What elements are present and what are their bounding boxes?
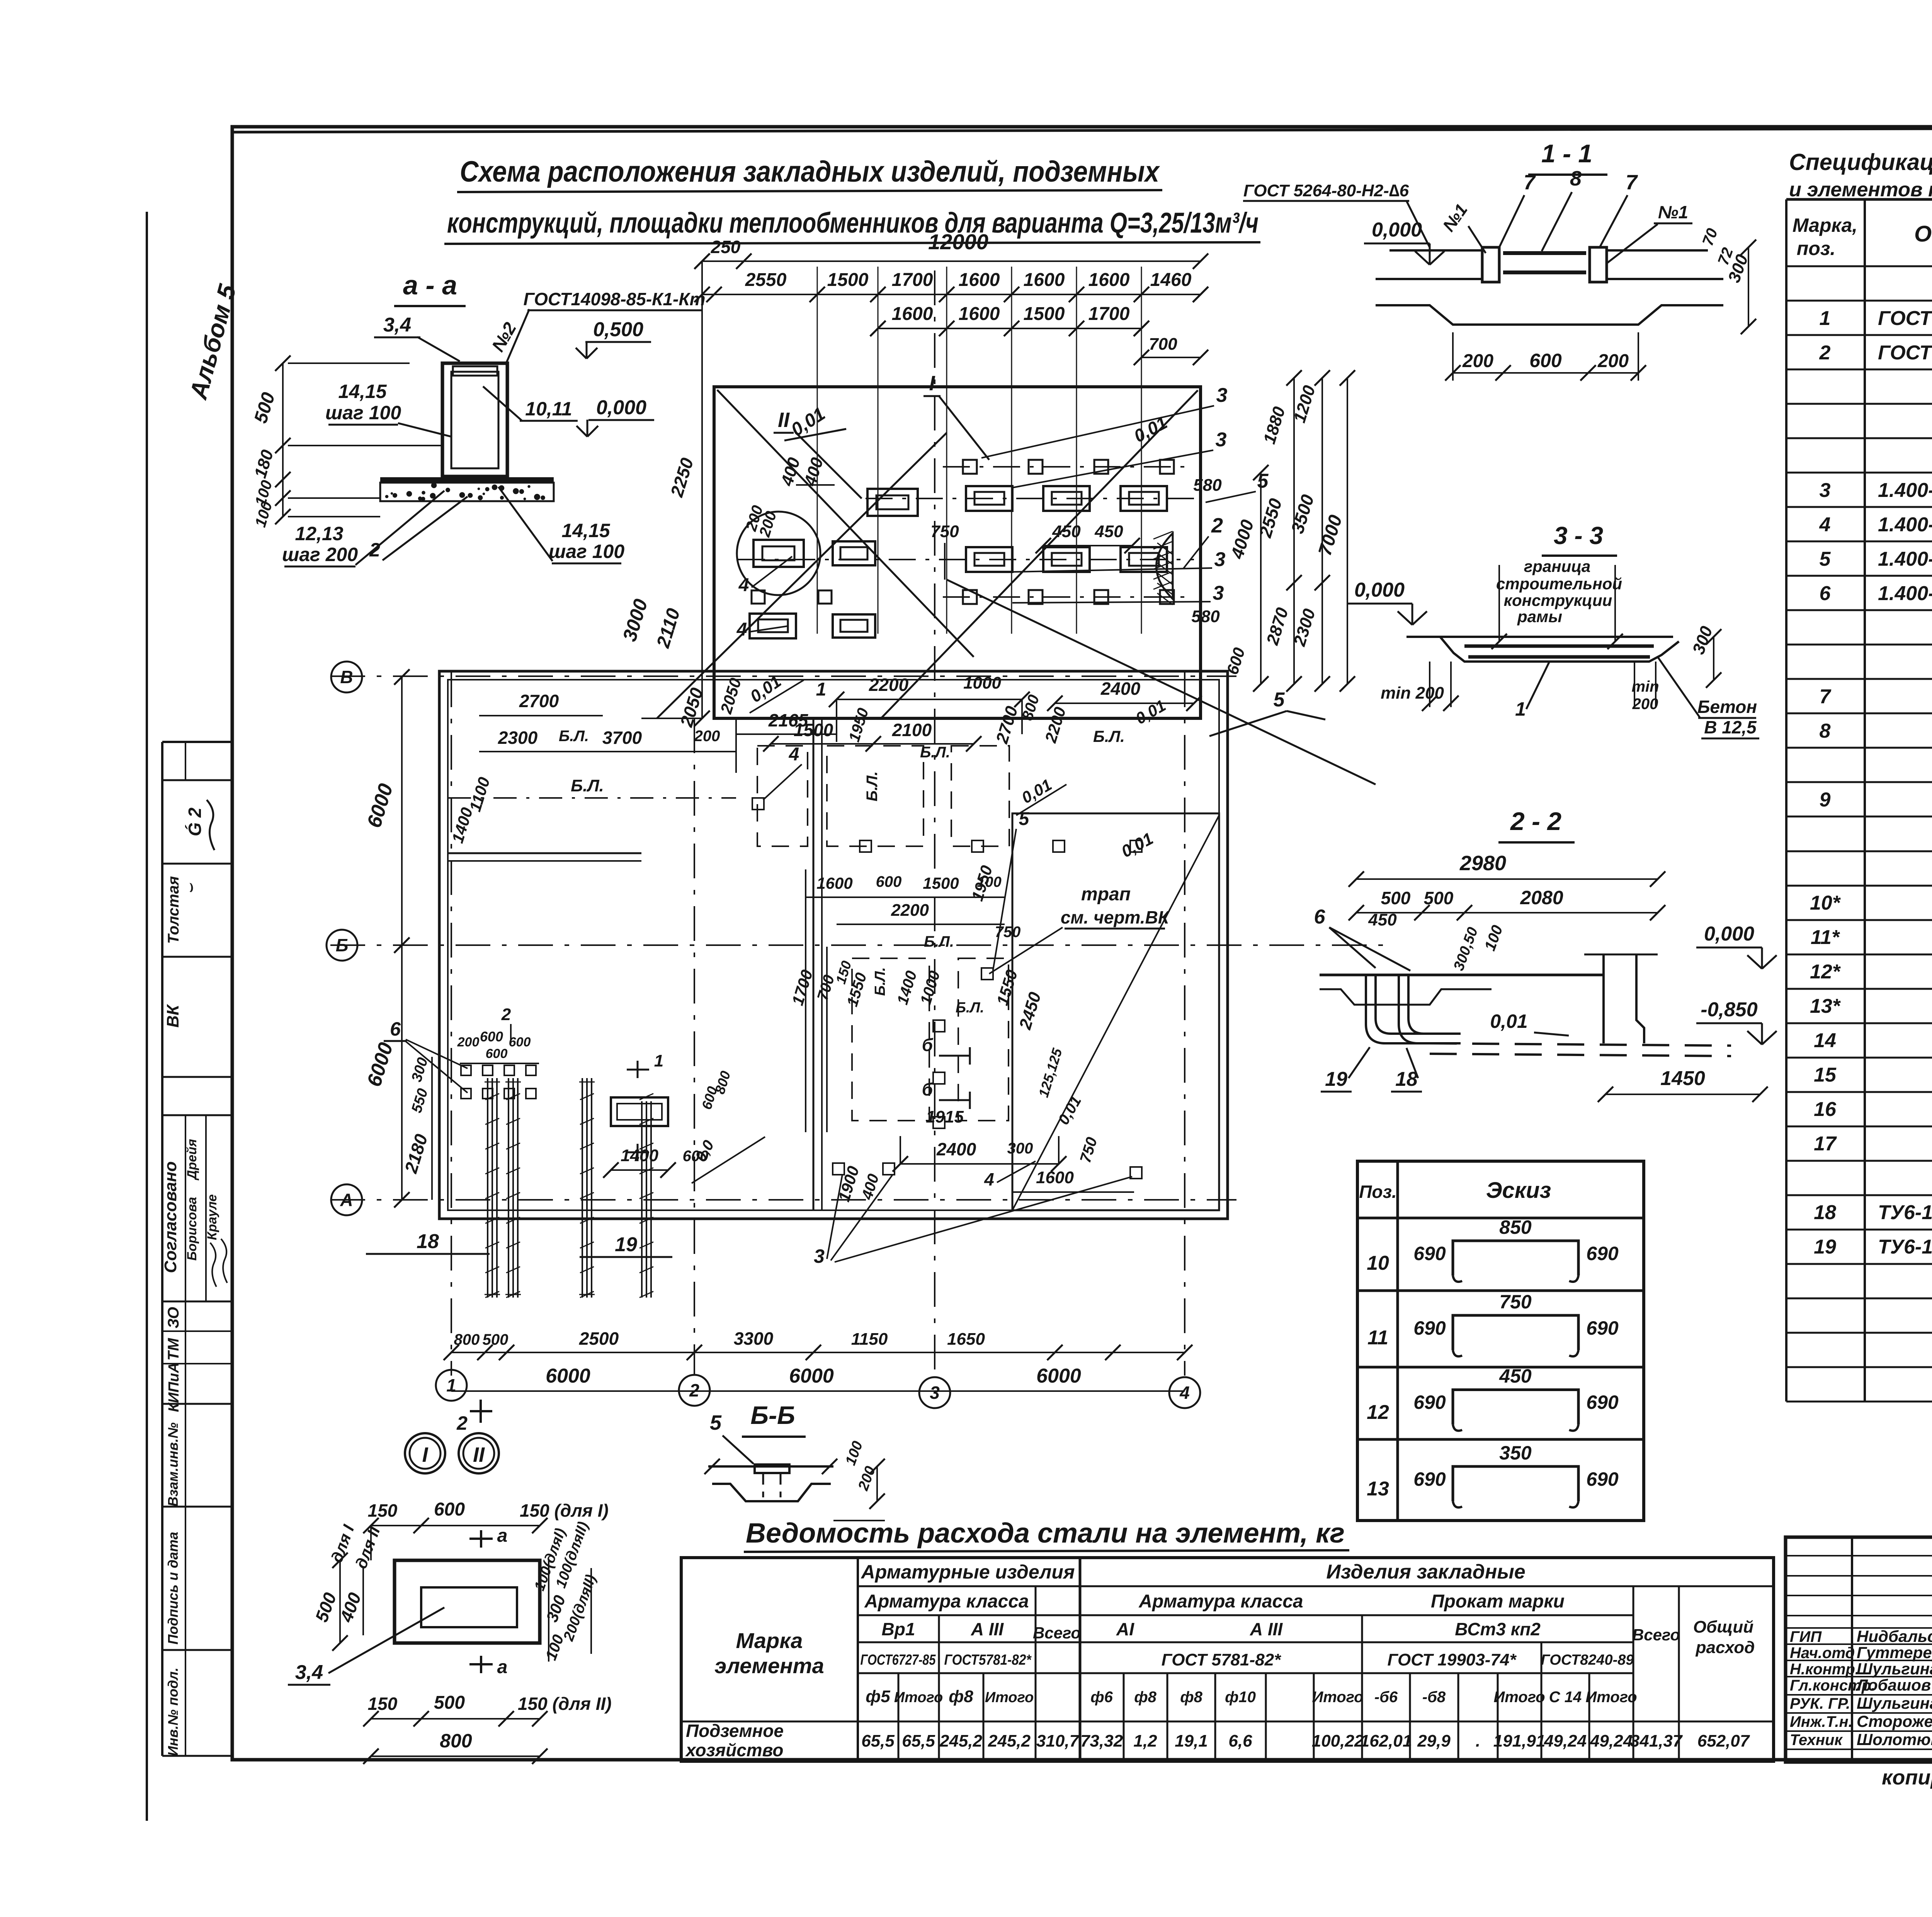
svg-text:2200: 2200	[891, 901, 929, 920]
svg-text:100,22: 100,22	[1312, 1732, 1364, 1750]
svg-text:Ǵ 2: Ǵ 2	[185, 808, 205, 837]
pipe hatch ticks	[485, 1094, 499, 1100]
svg-text:Шульгина: Шульгина	[1857, 1660, 1932, 1678]
svg-text:II: II	[473, 1443, 485, 1466]
svg-text:245,2: 245,2	[939, 1732, 983, 1750]
svg-text:200: 200	[694, 728, 720, 745]
svg-text:65,5: 65,5	[902, 1732, 935, 1750]
svg-text:шаг 200: шаг 200	[282, 544, 358, 565]
svg-text:граница: граница	[1524, 557, 1590, 575]
svg-text:3: 3	[1216, 384, 1228, 407]
svg-text:1460: 1460	[1150, 270, 1192, 290]
svg-text:Общий: Общий	[1693, 1618, 1753, 1636]
svg-text:3 - 3: 3 - 3	[1554, 522, 1603, 549]
svg-text:4: 4	[1819, 514, 1831, 536]
svg-text:4: 4	[789, 744, 799, 765]
2-2 slab	[1320, 974, 1604, 976]
svg-text:Арматурные изделия: Арматурные изделия	[861, 1561, 1075, 1583]
svg-text:7: 7	[1524, 171, 1536, 194]
svg-text:Подпись и дата: Подпись и дата	[165, 1532, 181, 1645]
a-a floor slab	[380, 477, 554, 482]
svg-text:600: 600	[1529, 350, 1562, 371]
svg-text:Спецификация к схеме расположе: Спецификация к схеме расположения подзем…	[1789, 149, 1932, 175]
svg-text:Сторожева: Сторожева	[1857, 1712, 1932, 1730]
svg-text:ГОСТ 19903-74*: ГОСТ 19903-74*	[1388, 1650, 1517, 1669]
svg-text:19,1: 19,1	[1175, 1732, 1208, 1750]
svg-text:хозяйство: хозяйство	[685, 1740, 783, 1760]
upper plan diagonals	[717, 390, 974, 657]
svg-text:690: 690	[1413, 1468, 1446, 1490]
svg-text:2500: 2500	[579, 1328, 619, 1349]
svg-text:ф5: ф5	[866, 1687, 890, 1706]
a-a dim chain left	[282, 363, 284, 517]
svg-text:0,000: 0,000	[1354, 579, 1405, 601]
svg-text:В 12,5: В 12,5	[1704, 717, 1757, 737]
svg-text:1600: 1600	[1024, 270, 1065, 290]
svg-text:Поз.: Поз.	[1359, 1182, 1396, 1202]
svg-text:3700: 3700	[602, 728, 642, 748]
svg-text:Б.Л.: Б.Л.	[924, 933, 954, 950]
svg-text:341,37: 341,37	[1630, 1732, 1683, 1750]
svg-text:2: 2	[1211, 514, 1223, 537]
svg-text:конструкций, площадки теплоо: конструкций, площадки теплообменников дл…	[447, 207, 1259, 239]
svg-text:1500: 1500	[1024, 304, 1065, 324]
svg-text:300: 300	[1007, 1140, 1033, 1157]
svg-text:.: .	[1476, 1732, 1480, 1750]
svg-text:А III: А III	[1250, 1619, 1283, 1639]
svg-text:6: 6	[1314, 906, 1326, 928]
svg-text:рамы: рамы	[1517, 607, 1562, 626]
svg-text:19: 19	[1814, 1236, 1836, 1258]
svg-text:200: 200	[457, 1035, 480, 1050]
svg-text:1600: 1600	[892, 304, 933, 324]
svg-text:3,4: 3,4	[383, 314, 411, 336]
svg-text:1600: 1600	[1088, 270, 1130, 290]
svg-text:РУК. ГР.: РУК. ГР.	[1790, 1695, 1850, 1712]
svg-text:Б.Л.: Б.Л.	[559, 728, 589, 745]
svg-text:14,15: 14,15	[338, 381, 387, 402]
svg-text:ВСт3 кп2: ВСт3 кп2	[1455, 1619, 1541, 1639]
title block outer	[1786, 1537, 1932, 1762]
1-1 left slab	[1389, 249, 1482, 252]
svg-text:-б8: -б8	[1422, 1689, 1446, 1706]
detail section marks a	[480, 1530, 482, 1548]
svg-text:500: 500	[434, 1692, 465, 1713]
svg-text:10: 10	[1367, 1252, 1389, 1274]
svg-text:Итого: Итого	[985, 1689, 1034, 1706]
svg-text:а: а	[497, 1526, 508, 1546]
svg-text:Б.Л.: Б.Л.	[920, 744, 950, 761]
svg-text:1600: 1600	[816, 874, 852, 892]
svg-text:4: 4	[984, 1169, 994, 1189]
svg-text:8: 8	[1570, 167, 1582, 190]
detail circle II	[459, 1433, 499, 1473]
svg-text:1700: 1700	[892, 270, 933, 290]
svg-text:1.400-15.В1. 430-31: 1.400-15.В1. 430-31	[1878, 548, 1932, 570]
svg-text:2300: 2300	[498, 728, 538, 748]
svg-text:12*: 12*	[1810, 961, 1841, 983]
svg-text:ГОСТ6727-85: ГОСТ6727-85	[861, 1652, 936, 1668]
a-a concrete band	[380, 483, 554, 501]
svg-text:7: 7	[1820, 685, 1832, 708]
svg-text:2400: 2400	[1100, 679, 1141, 699]
svg-text:Б.Л.: Б.Л.	[864, 771, 881, 801]
svg-text:1.400-15 В1. 430-07: 1.400-15 В1. 430-07	[1878, 514, 1932, 536]
svg-text:4: 4	[1179, 1383, 1190, 1403]
svg-text:0,01: 0,01	[1490, 1010, 1527, 1032]
Эскиз table frame	[1357, 1161, 1644, 1521]
svg-text:4: 4	[738, 575, 749, 595]
svg-text:1: 1	[446, 1375, 456, 1395]
ведомость horizontals	[858, 1585, 1774, 1587]
svg-text:Марка,: Марка,	[1793, 214, 1857, 236]
svg-text:ГОСТ14098-85-К1-Кт: ГОСТ14098-85-К1-Кт	[523, 289, 705, 309]
svg-text:1: 1	[654, 1051, 663, 1070]
svg-text:580: 580	[1191, 607, 1220, 626]
svg-text:150 (для II): 150 (для II)	[518, 1694, 612, 1714]
svg-text:690: 690	[1413, 1317, 1446, 1339]
2-2 right element	[1604, 954, 1644, 1043]
svg-text:Б.Л.: Б.Л.	[956, 1000, 984, 1016]
svg-text:700: 700	[1149, 335, 1177, 354]
svg-text:Толстая: Толстая	[165, 876, 182, 944]
Б-Б section drawing	[708, 1465, 833, 1468]
lower plan outer wall	[439, 671, 1228, 1219]
svg-text:250: 250	[711, 237, 741, 257]
1-1 right slab	[1607, 249, 1708, 252]
svg-text:С 14: С 14	[1549, 1689, 1582, 1706]
svg-text:5: 5	[1257, 470, 1269, 492]
center pit	[611, 1097, 668, 1126]
svg-text:1,2: 1,2	[1133, 1732, 1157, 1750]
svg-text:3: 3	[1214, 548, 1226, 571]
ведомость verticals	[857, 1558, 859, 1761]
svg-text:5: 5	[1274, 689, 1285, 711]
svg-text:17: 17	[1814, 1133, 1837, 1155]
svg-text:Б-Б: Б-Б	[750, 1401, 795, 1429]
svg-text:2: 2	[369, 539, 380, 561]
sheet left edge line	[146, 212, 148, 1821]
svg-text:I: I	[422, 1443, 428, 1466]
svg-text:6000: 6000	[546, 1365, 590, 1387]
svg-text:Б.Л.: Б.Л.	[872, 967, 888, 996]
svg-text:1450: 1450	[1660, 1067, 1705, 1090]
upper plan embeds row C	[966, 547, 1012, 572]
svg-text:Нидбальский: Нидбальский	[1857, 1627, 1932, 1645]
svg-text:15: 15	[1814, 1064, 1837, 1086]
svg-text:Арматура класса: Арматура класса	[1138, 1591, 1303, 1612]
3-3 slab	[1406, 636, 1673, 638]
svg-text:ф8: ф8	[1134, 1689, 1156, 1706]
1-1 dims below	[1453, 372, 1638, 374]
svg-text:строительной: строительной	[1496, 575, 1622, 593]
left room squares	[461, 1065, 471, 1075]
svg-text:Итого: Итого	[894, 1689, 943, 1706]
svg-text:500: 500	[483, 1331, 509, 1348]
svg-text:13: 13	[1367, 1478, 1389, 1500]
svg-text:1: 1	[816, 679, 827, 700]
svg-text:3300: 3300	[734, 1328, 774, 1349]
svg-text:750: 750	[1499, 1291, 1532, 1313]
1-1 bottom trapezoid	[1376, 305, 1723, 325]
svg-text:3: 3	[1820, 479, 1831, 502]
svg-text:1: 1	[1820, 307, 1831, 330]
svg-text:600: 600	[876, 873, 902, 890]
svg-text:Марка: Марка	[736, 1628, 803, 1653]
svg-text:элемента: элемента	[714, 1653, 824, 1678]
svg-text:1000: 1000	[963, 674, 1001, 692]
svg-text:1: 1	[1515, 698, 1526, 720]
center squares	[833, 1163, 844, 1175]
svg-text:А: А	[340, 1190, 353, 1210]
svg-text:600: 600	[486, 1046, 508, 1061]
svg-text:Итого: Итого	[1585, 1689, 1637, 1706]
svg-text:29,9: 29,9	[1417, 1732, 1451, 1750]
svg-text:2550: 2550	[745, 270, 787, 290]
svg-text:ГОСТ 5264-80-Н2-∆6: ГОСТ 5264-80-Н2-∆6	[1243, 181, 1409, 200]
svg-text:2400: 2400	[936, 1139, 976, 1159]
strip signature squiggles	[207, 800, 214, 850]
svg-text:2980: 2980	[1459, 852, 1506, 875]
svg-text:800: 800	[454, 1331, 480, 1348]
svg-text:шаг 100: шаг 100	[325, 402, 401, 424]
svg-text:1700: 1700	[1088, 304, 1130, 324]
svg-text:Шульгина: Шульгина	[1857, 1694, 1932, 1712]
svg-text:600: 600	[509, 1035, 531, 1050]
svg-text:2 - 2: 2 - 2	[1510, 807, 1561, 835]
svg-text:5: 5	[1820, 548, 1831, 570]
svg-text:ГОСТ5781-82*: ГОСТ5781-82*	[944, 1652, 1032, 1668]
svg-text:350: 350	[1499, 1442, 1532, 1464]
svg-text:9: 9	[1820, 789, 1831, 811]
a-a channel column	[442, 363, 507, 476]
svg-text:Схема расположения закладных: Схема расположения закладных изделий, по…	[460, 155, 1160, 188]
right vertical chains	[1260, 473, 1262, 684]
svg-text:1500: 1500	[923, 874, 959, 892]
svg-text:2165: 2165	[768, 710, 809, 730]
svg-text:18: 18	[417, 1230, 439, 1253]
svg-text:3: 3	[1216, 429, 1227, 451]
svg-text:II: II	[778, 408, 790, 432]
svg-text:14,15: 14,15	[561, 520, 610, 541]
svg-text:а - а: а - а	[403, 270, 457, 300]
svg-text:Обозначение: Обозначение	[1914, 221, 1932, 247]
pipes 19	[582, 1078, 583, 1298]
svg-text:Согласовано: Согласовано	[161, 1161, 180, 1273]
svg-text:600: 600	[480, 1029, 503, 1044]
svg-text:см. черт.ВК: см. черт.ВК	[1061, 907, 1170, 927]
svg-text:Всего: Всего	[1632, 1626, 1680, 1644]
svg-text:Взам.инв.№: Взам.инв.№	[165, 1422, 181, 1507]
svg-text:2700: 2700	[519, 691, 559, 711]
svg-text:1600: 1600	[959, 304, 1000, 324]
svg-text:150 (для I): 150 (для I)	[520, 1500, 609, 1521]
upper plan outline	[714, 387, 1201, 718]
svg-text:Борисова: Борисова	[185, 1197, 199, 1260]
grid lines vertical	[451, 672, 452, 1376]
svg-text:Эскиз: Эскиз	[1486, 1178, 1551, 1203]
svg-text:Итого: Итого	[1312, 1689, 1363, 1706]
svg-text:Шолотюк: Шолотюк	[1857, 1730, 1932, 1749]
title block signature columns	[1851, 1537, 1853, 1762]
svg-text:800: 800	[440, 1730, 472, 1752]
svg-text:Изделия закладные: Изделия закладные	[1326, 1561, 1525, 1583]
svg-text:2100: 2100	[892, 720, 932, 740]
svg-text:6: 6	[1820, 582, 1831, 605]
svg-text:Дрейя: Дрейя	[185, 1139, 199, 1180]
upper plan circle detail	[737, 512, 820, 595]
upper plan lower squares	[752, 590, 765, 604]
svg-text:49,24: 49,24	[1544, 1732, 1587, 1750]
svg-text:11: 11	[1367, 1327, 1388, 1349]
svg-text:6000: 6000	[1036, 1365, 1081, 1387]
svg-text:ГОСТ 23279-85: ГОСТ 23279-85	[1878, 342, 1932, 364]
svg-text:ф10: ф10	[1225, 1689, 1256, 1706]
svg-text:652,07: 652,07	[1697, 1732, 1750, 1750]
svg-text:5: 5	[710, 1411, 722, 1434]
bottom 6000 dims	[451, 1390, 1185, 1392]
svg-text:1.400-6/76: 1.400-6/76	[1878, 582, 1932, 605]
center cluster guide lines	[805, 869, 806, 1132]
svg-text:3: 3	[814, 1245, 825, 1267]
svg-text:и элементов площадки теплообме: и элементов площадки теплообменников для…	[1789, 179, 1932, 201]
svg-text:б: б	[922, 1035, 934, 1055]
partition wall vertical	[813, 718, 815, 1210]
svg-text:1600: 1600	[959, 270, 1000, 290]
detail rect outer	[395, 1560, 540, 1643]
svg-text:690: 690	[1586, 1317, 1619, 1339]
svg-text:Арматура класса: Арматура класса	[864, 1591, 1029, 1612]
svg-text:⌣: ⌣	[182, 883, 199, 894]
bottom dim chain	[451, 1352, 1185, 1353]
pipes 19b	[641, 1101, 643, 1298]
svg-text:14: 14	[1814, 1029, 1836, 1052]
svg-text:Бетон: Бетон	[1697, 697, 1757, 717]
svg-text:поз.: поз.	[1797, 238, 1836, 259]
upper plan squares row D	[963, 590, 977, 604]
svg-text:1400: 1400	[621, 1146, 658, 1165]
section marker 1	[637, 1061, 639, 1078]
center room dashed blocks	[757, 746, 808, 846]
2-2 pipes	[1366, 975, 1430, 1043]
svg-text:Вр1: Вр1	[882, 1619, 915, 1639]
svg-text:Б.Л.: Б.Л.	[571, 776, 604, 795]
svg-text:Крауле: Крауле	[205, 1194, 219, 1240]
drawing frame	[232, 127, 1932, 1760]
svg-text:19: 19	[1325, 1068, 1347, 1090]
svg-text:1650: 1650	[947, 1330, 985, 1349]
svg-text:4: 4	[736, 619, 747, 640]
svg-text:0,500: 0,500	[593, 318, 643, 341]
svg-text:7: 7	[1626, 171, 1638, 194]
svg-text:ГОСТ 5781-82*: ГОСТ 5781-82*	[1162, 1650, 1281, 1669]
svg-text:19: 19	[615, 1233, 637, 1256]
svg-text:ГОСТ8240-89: ГОСТ8240-89	[1541, 1652, 1634, 1668]
svg-text:Б.Л.: Б.Л.	[1093, 727, 1125, 745]
svg-text:3: 3	[1213, 582, 1224, 604]
svg-text:3: 3	[930, 1383, 940, 1403]
svg-text:Прокат марки: Прокат марки	[1431, 1591, 1565, 1612]
svg-text:200: 200	[1462, 351, 1493, 371]
left margin stamp strip	[161, 742, 163, 1756]
svg-text:Б: Б	[336, 935, 349, 955]
pipes 18a	[487, 1078, 488, 1298]
svg-text:690: 690	[1413, 1391, 1446, 1413]
svg-text:6: 6	[390, 1018, 401, 1040]
svg-text:73,32: 73,32	[1080, 1732, 1123, 1750]
svg-text:конструкции: конструкции	[1504, 591, 1612, 609]
svg-text:450: 450	[1094, 522, 1123, 541]
svg-text:18: 18	[1395, 1068, 1418, 1090]
svg-text:А III: А III	[971, 1619, 1004, 1639]
detail rect inner	[421, 1587, 517, 1627]
svg-text:12,13: 12,13	[295, 523, 343, 544]
svg-text:Итого: Итого	[1493, 1689, 1545, 1706]
svg-text:ф6: ф6	[1090, 1689, 1113, 1706]
svg-text:Инв.№ подл.: Инв.№ подл.	[165, 1667, 181, 1756]
svg-text:450: 450	[1499, 1365, 1532, 1387]
svg-text:65,5: 65,5	[861, 1732, 895, 1750]
svg-text:200: 200	[1632, 696, 1658, 713]
svg-text:12: 12	[1367, 1401, 1389, 1424]
svg-text:В: В	[340, 667, 353, 687]
2-2 underground dashed lines	[1430, 1043, 1731, 1046]
svg-text:1500: 1500	[827, 270, 869, 290]
svg-text:ф8: ф8	[1180, 1689, 1202, 1706]
svg-text:450: 450	[1052, 522, 1081, 541]
hatched wedge right	[1156, 533, 1173, 599]
svg-text:2: 2	[456, 1412, 468, 1434]
svg-text:ЗО: ЗО	[165, 1307, 182, 1328]
svg-text:310,7: 310,7	[1036, 1732, 1080, 1750]
svg-text:150: 150	[368, 1694, 398, 1714]
svg-text:2: 2	[1819, 342, 1831, 364]
svg-text:245,2: 245,2	[988, 1732, 1031, 1750]
Б.Л. lines left room	[448, 797, 736, 799]
svg-text:850: 850	[1499, 1216, 1532, 1238]
svg-text:Лобашов: Лобашов	[1855, 1676, 1931, 1694]
grid bubbles	[331, 662, 362, 692]
upper plan embeds row B	[966, 486, 1012, 511]
svg-text:10,11: 10,11	[525, 398, 572, 420]
upper plan embeds row A	[963, 460, 977, 474]
svg-text:-0,850: -0,850	[1701, 998, 1758, 1021]
svg-text:трап: трап	[1081, 884, 1131, 905]
svg-text:690: 690	[1413, 1243, 1446, 1264]
svg-text:2080: 2080	[1520, 887, 1563, 908]
svg-text:500: 500	[1381, 888, 1411, 908]
svg-text:а: а	[497, 1657, 508, 1677]
svg-text:ГОСТ 23279-85: ГОСТ 23279-85	[1878, 307, 1932, 330]
left vertical chain	[701, 261, 703, 718]
svg-text:0,000: 0,000	[1704, 923, 1754, 945]
svg-text:1150: 1150	[851, 1330, 888, 1349]
detail circle I	[405, 1433, 445, 1473]
svg-text:шаг 100: шаг 100	[549, 541, 624, 562]
1-1 channels	[1482, 247, 1499, 282]
svg-text:10*: 10*	[1810, 892, 1841, 914]
svg-text:13*: 13*	[1810, 995, 1841, 1017]
svg-text:450: 450	[1368, 910, 1397, 929]
left dims	[401, 677, 403, 1200]
svg-text:1600: 1600	[1036, 1168, 1074, 1187]
svg-text:6000: 6000	[789, 1365, 834, 1387]
svg-text:191,91: 191,91	[1493, 1732, 1546, 1750]
svg-text:№1: №1	[1658, 202, 1688, 222]
svg-text:ВК: ВК	[163, 1004, 182, 1028]
svg-text:Техник: Техник	[1790, 1732, 1843, 1749]
svg-text:8: 8	[1820, 720, 1831, 742]
